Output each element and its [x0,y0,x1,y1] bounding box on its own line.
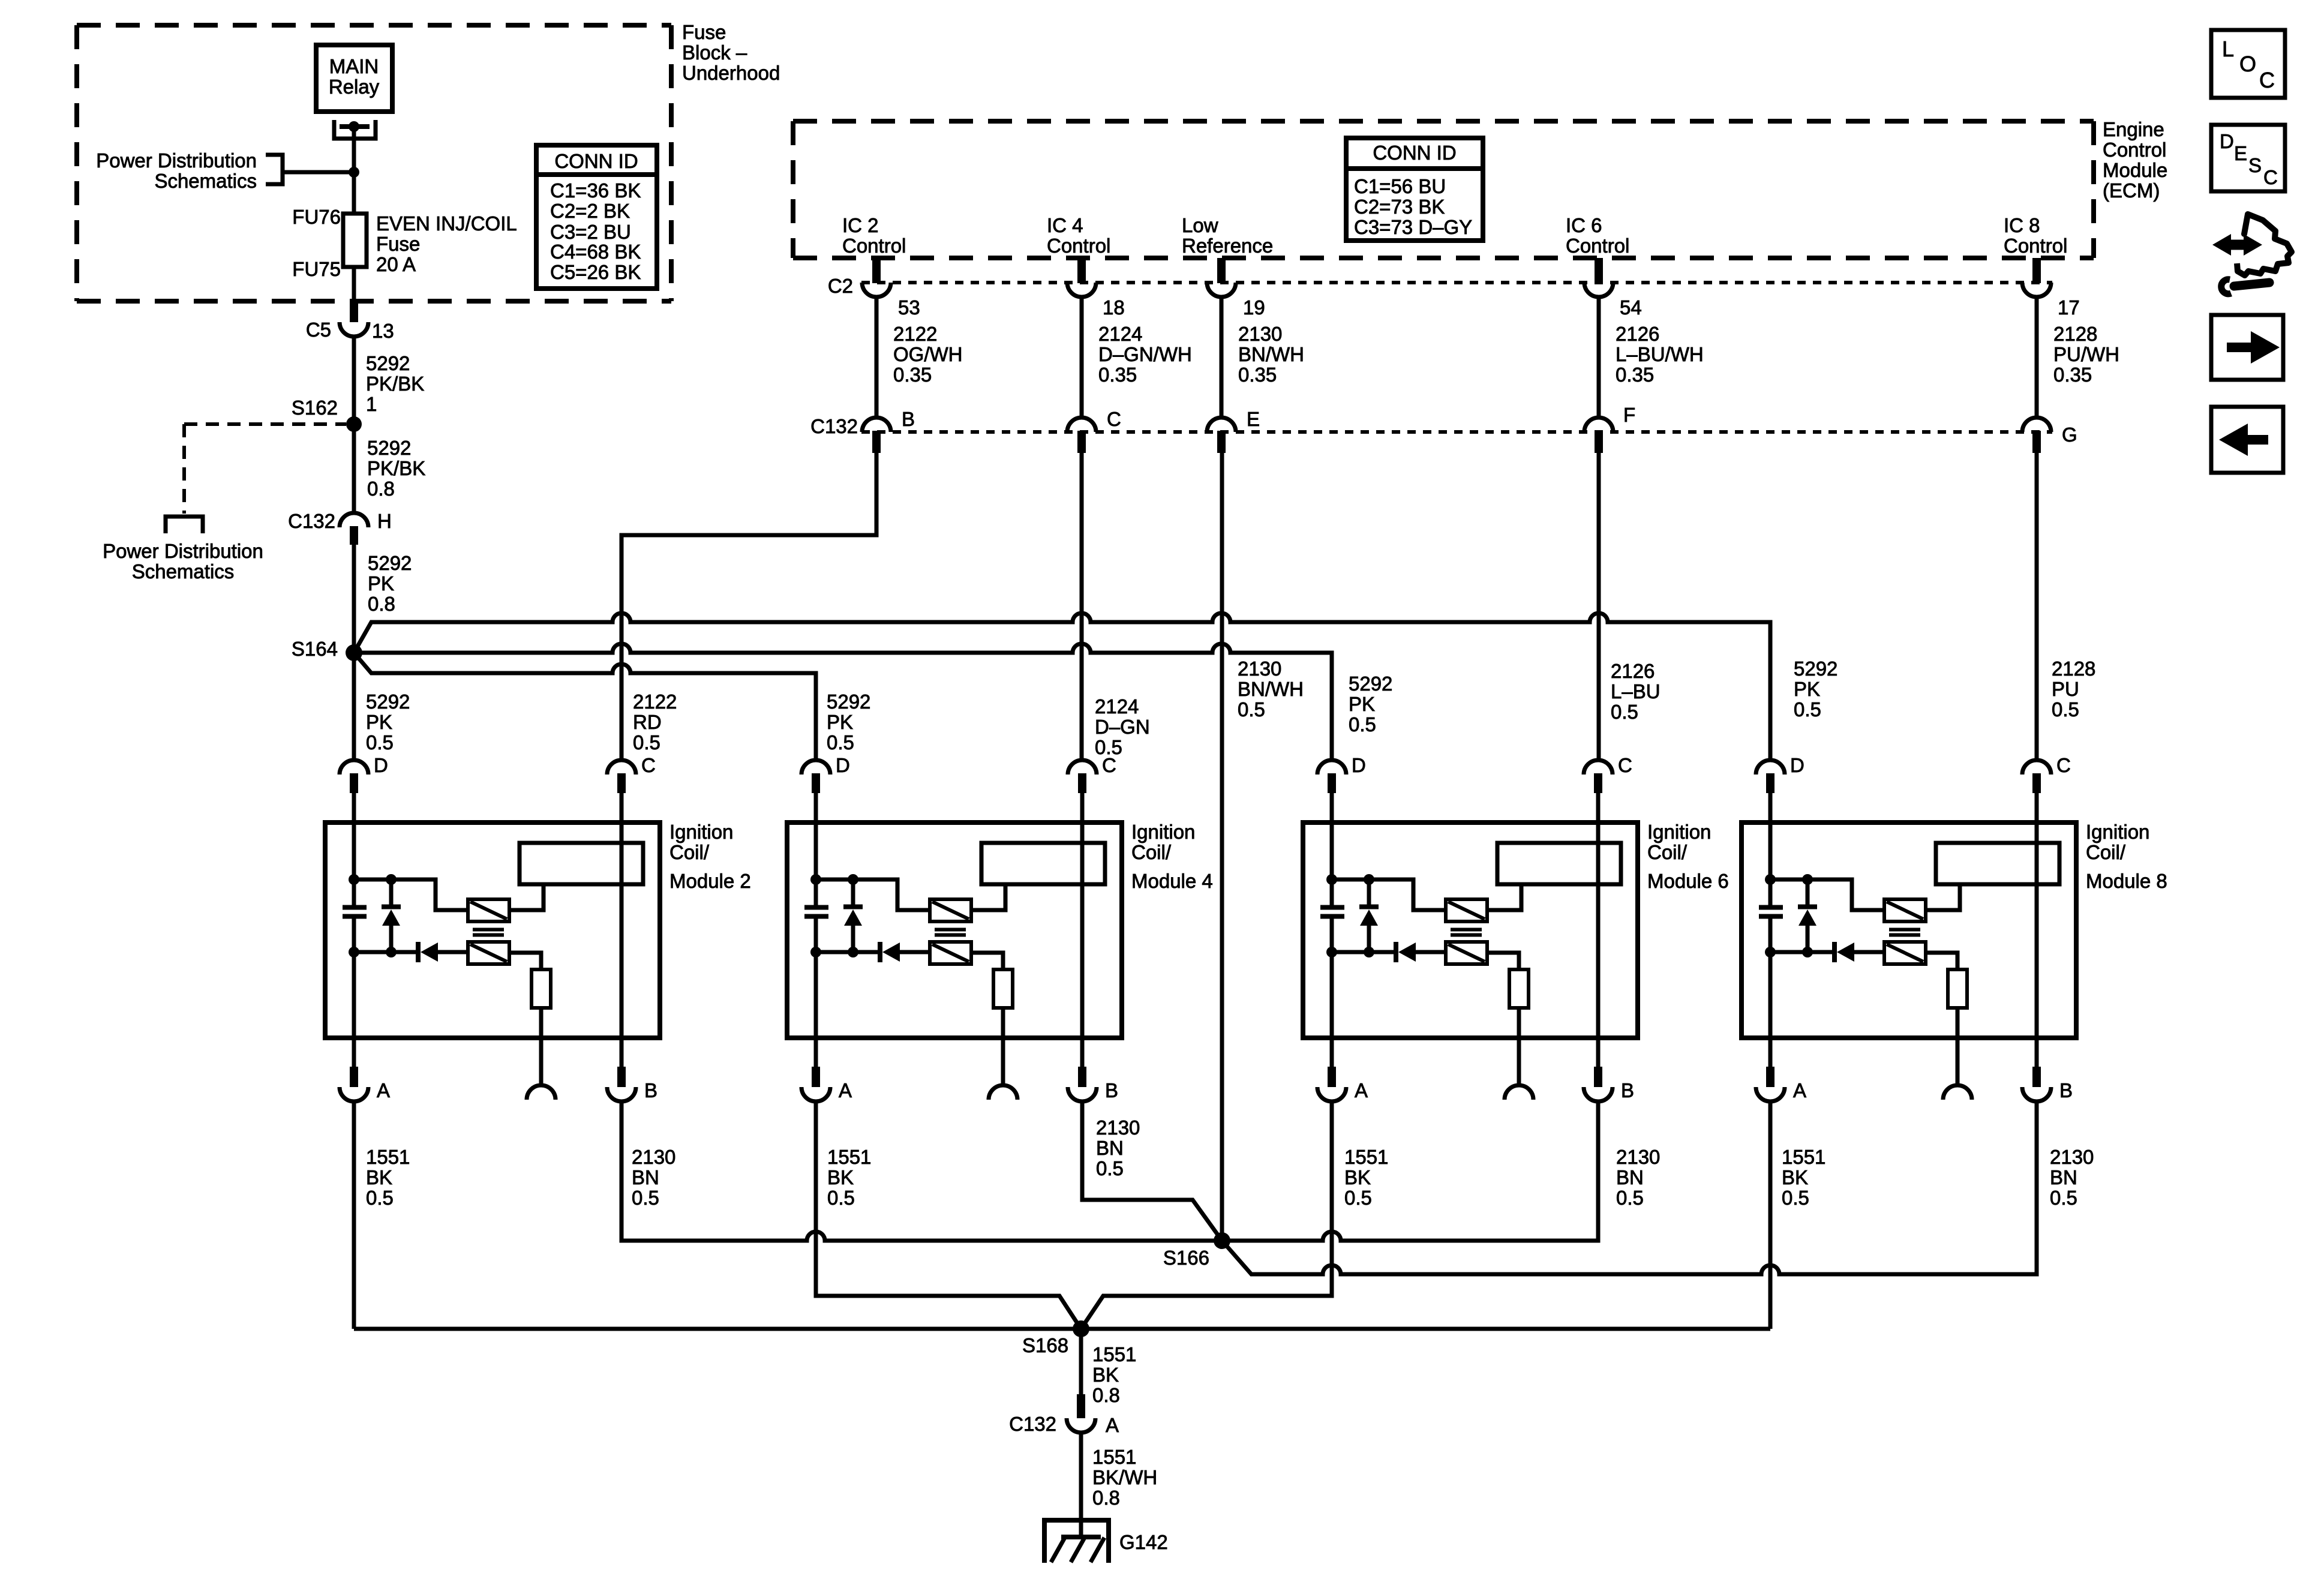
svg-text:C4=68 BK: C4=68 BK [550,241,641,263]
svg-text:17: 17 [2058,296,2080,319]
spark plug terminal coil 6 [1505,1085,1533,1100]
secondary winding coil 2 [468,942,509,964]
svg-text:O: O [2239,52,2256,76]
connector coil 6 pin C terminal [1584,760,1613,775]
svg-text:Control: Control [1566,235,1629,257]
node coil 8 bottom-left junction [1765,947,1776,957]
svg-text:2126: 2126 [1611,660,1655,682]
connector coil 6 pin C male pin [1594,773,1602,793]
driver block coil 4 [981,843,1105,884]
fuse block underhood dashed box [77,23,671,28]
primary winding coil 8 [1884,899,1926,921]
wire 2124 D-GN 0.5 (C132 C to coil 4 pin C) [1080,453,1084,760]
wire 5292 PK/BK 0.8 (S162 to C132 H) [352,424,356,513]
wire 2122 OG/WH 0.35 (pin53 to C132 B) [875,297,879,418]
connector C132 pin H male pin [350,526,358,545]
connector C2 pin 18 male pin [1077,258,1086,283]
primary winding coil 6 [1446,899,1487,921]
svg-text:PU/WH: PU/WH [2053,343,2119,365]
svg-text:D: D [2220,130,2234,152]
svg-text:Module 8: Module 8 [2086,870,2167,892]
svg-text:C1=36 BK: C1=36 BK [550,179,641,202]
connector C132 pin B terminal [862,418,891,432]
wire coil 8 primary to driver block [1926,884,1960,910]
wire 1551 BK 0.5 (coil 4 A to S168) [816,1101,1081,1329]
zener diode coil 2 [389,879,394,905]
svg-text:0.5: 0.5 [1782,1187,1809,1209]
conn id table fuse block [536,145,657,289]
svg-text:BN: BN [1616,1166,1644,1188]
svg-text:2124: 2124 [1095,695,1139,718]
svg-text:2122: 2122 [633,691,677,713]
resistor coil 6 [1509,969,1529,1008]
svg-text:Module 6: Module 6 [1647,870,1729,892]
svg-text:0.8: 0.8 [1092,1487,1120,1509]
svg-text:D: D [374,754,388,776]
ignition coil module 4 box [787,822,1122,1038]
wire 2130 BN/WH 0.35 (pin19 to C132 E) [1220,297,1224,418]
wire coil 4 resistor to spark output [1001,1008,1005,1085]
icon next arrow box [2211,315,2283,380]
wire 5292 PK 0.8 (C132 H to S164) [352,545,356,653]
svg-text:Relay: Relay [329,76,380,98]
svg-text:Reference: Reference [1182,235,1273,257]
svg-text:B: B [644,1079,657,1101]
svg-text:2130: 2130 [1238,658,1281,680]
svg-text:IC 2: IC 2 [842,214,879,236]
connector coil 2 pin C terminal [607,760,636,775]
svg-text:B: B [1621,1079,1634,1101]
svg-text:Power Distribution: Power Distribution [96,149,257,172]
wire 1551 BK 0.5 (S168 bus to coil 8 A) [354,1101,1770,1329]
svg-text:Power Distribution: Power Distribution [103,540,263,562]
svg-text:0.35: 0.35 [1616,364,1654,386]
ground G142 [1042,1520,1111,1563]
wire coil 2 top branch [354,879,468,910]
connector C132 pin E male pin [1217,431,1226,453]
connector coil 4 pin B male pin [1078,1067,1086,1087]
ignition coil module 6 box [1303,822,1638,1038]
svg-text:C2=2 BK: C2=2 BK [550,200,630,222]
connector coil 2 pin A male pin [350,1067,358,1087]
svg-text:Coil/: Coil/ [1647,841,1688,863]
connector coil 4 pin B terminal [1068,1087,1097,1101]
svg-text:13: 13 [372,320,394,342]
wire coil 4 supply D to capacitor [814,793,818,905]
wire 1551 BK 0.5 (coil 2 A to S168 bus) [352,1101,356,1329]
svg-text:C: C [2259,68,2275,92]
svg-text:H: H [377,510,392,532]
wire coil 6 secondary to resistor [1487,953,1519,969]
svg-text:C: C [1618,754,1632,776]
wire 2126 L-BU/WH 0.35 (pin54 to C132 F) [1597,297,1601,418]
connector coil 6 pin A terminal [1317,1087,1346,1101]
wire 1551 BK 0.5 (coil 6 A to S168) [1081,1101,1332,1329]
svg-text:C3=2 BU: C3=2 BU [550,221,631,243]
svg-text:BN: BN [632,1166,659,1188]
secondary winding coil 8 [1884,942,1926,964]
svg-text:C: C [641,754,656,776]
svg-text:2130: 2130 [1238,323,1282,345]
core coil 6 [1451,928,1482,932]
connector C2 pin 18 terminal [1067,283,1096,297]
svg-text:C1=56 BU: C1=56 BU [1354,175,1446,197]
connector coil 2 pin D terminal [340,760,368,775]
svg-text:0.5: 0.5 [1794,698,1821,721]
svg-text:C: C [2263,166,2278,188]
svg-text:BK: BK [827,1166,854,1188]
svg-text:Block –: Block – [682,41,747,64]
svg-text:Ignition: Ignition [669,821,733,843]
connector coil 6 pin B terminal [1584,1087,1613,1101]
svg-text:S164: S164 [292,638,338,660]
icon LOC box [2211,30,2285,98]
svg-text:2130: 2130 [1096,1116,1140,1139]
wire coil 4 primary to driver block [971,884,1005,910]
svg-text:2130: 2130 [632,1146,675,1168]
svg-text:0.8: 0.8 [367,478,395,500]
svg-text:20 A: 20 A [376,253,416,275]
svg-text:Module 2: Module 2 [669,870,751,892]
svg-text:D–GN: D–GN [1095,716,1150,738]
resistor coil 8 [1948,969,1967,1008]
wire 5292 PK 0.5 (S164 to coil 2 pin D) [352,653,356,760]
svg-text:C132: C132 [288,510,335,532]
svg-text:1551: 1551 [1344,1146,1388,1168]
wire coil 2 supply D to capacitor [352,793,356,905]
connector C132 pin F male pin [1595,431,1603,453]
svg-text:0.5: 0.5 [1238,698,1265,721]
secondary winding coil 4 [930,942,971,964]
svg-text:C132: C132 [1009,1413,1056,1435]
svg-text:C: C [1107,408,1121,430]
svg-text:MAIN: MAIN [329,55,379,77]
node coil 4 zener bottom junction [848,947,858,957]
svg-text:B: B [2059,1079,2073,1101]
wire coil 8 supply D to capacitor [1768,793,1773,905]
connector coil 6 pin B male pin [1594,1067,1602,1087]
svg-text:B: B [902,408,915,430]
svg-text:L–BU/WH: L–BU/WH [1616,343,1704,365]
capacitor coil 2 [343,905,367,910]
svg-text:0.5: 0.5 [827,1187,855,1209]
core coil 8 [1889,928,1920,932]
svg-text:S166: S166 [1163,1247,1209,1269]
svg-text:L: L [2222,37,2234,61]
svg-text:BN: BN [2050,1166,2077,1188]
svg-text:19: 19 [1243,296,1265,319]
wire bracket to junction [284,170,354,175]
wire 2126 L-BU 0.5 (C132 F to coil 6 pin C) [1597,453,1601,760]
svg-text:PK: PK [827,711,853,733]
capacitor coil 8 [1759,905,1783,910]
wire coil 6 supply D to capacitor [1330,793,1334,905]
svg-text:Low: Low [1182,214,1218,236]
svg-text:BN: BN [1096,1137,1124,1159]
connector C132 pin A male pin [1077,1394,1085,1418]
wire coil 2 secondary to resistor [509,953,541,969]
connector coil 6 pin D male pin [1328,773,1336,793]
svg-text:E: E [2234,142,2247,164]
svg-text:C5: C5 [306,319,331,341]
svg-text:1551: 1551 [1092,1343,1136,1365]
svg-text:G: G [2062,424,2077,446]
connector C2 pin 54 terminal [1584,283,1613,297]
wire 2128 PU 0.5 (C132 G to coil 8 pin C) [2035,453,2039,760]
wire coil 6 top branch [1332,879,1446,910]
svg-text:18: 18 [1103,296,1125,319]
svg-text:0.5: 0.5 [366,1187,394,1209]
svg-text:L–BU: L–BU [1611,680,1661,703]
svg-text:BK: BK [366,1166,392,1188]
node power distribution junction [349,167,359,178]
connector coil 8 pin C male pin [2032,773,2041,793]
svg-text:Control: Control [1047,235,1110,257]
node coil 2 zener top junction [386,874,397,885]
svg-text:5292: 5292 [1794,658,1837,680]
node coil 2 zener bottom junction [386,947,397,957]
engine control module ECM dashed box [793,119,2094,124]
splice S166 [1214,1232,1230,1249]
ignition coil module 8 box [1742,822,2076,1038]
connector coil 6 pin A male pin [1328,1067,1336,1087]
wire 5292 PK 0.5 (S164 to coil 6 pin D) [354,644,1332,760]
svg-text:0.35: 0.35 [1098,364,1137,386]
svg-text:(ECM): (ECM) [2103,179,2160,202]
connector C132 pin E terminal [1207,418,1236,432]
svg-text:G142: G142 [1119,1531,1168,1553]
wire coil 8 control C through driver [2035,793,2039,1067]
svg-text:0.5: 0.5 [2050,1187,2077,1209]
svg-text:1: 1 [366,393,377,415]
wire coil 6 bottom branch to diode [1332,950,1394,954]
connector C132 pin C male pin [1077,431,1086,453]
svg-text:0.5: 0.5 [1349,713,1376,736]
svg-text:S168: S168 [1022,1334,1068,1356]
connector coil 4 pin C male pin [1078,773,1086,793]
svg-text:RD: RD [633,711,662,733]
wire coil 4 control C through driver [1080,793,1085,1067]
wire 5292 PK/BK 1 (C5 to S162) [352,337,356,424]
node coil 2 bottom-left junction [349,947,359,957]
svg-text:C132: C132 [810,415,858,437]
wire coil 6 resistor to spark output [1517,1008,1521,1085]
connector coil 8 pin B male pin [2032,1067,2041,1087]
wire 1551 BK/WH 0.8 (C132 A to G142) [1079,1433,1083,1537]
svg-text:C5=26 BK: C5=26 BK [550,261,641,283]
driver block coil 6 [1497,843,1621,884]
svg-text:D–GN/WH: D–GN/WH [1098,343,1192,365]
connector coil 8 pin B terminal [2022,1087,2051,1101]
diode coil 2 [416,942,421,962]
svg-text:Ignition: Ignition [2086,821,2149,843]
connector C2 pin 19 terminal [1207,283,1236,297]
svg-text:Schematics: Schematics [132,560,235,583]
svg-text:FU75: FU75 [292,258,341,280]
wire coil 4 secondary to resistor [971,953,1003,969]
off-page bracket power distribution [266,155,283,184]
svg-text:D: D [836,754,850,776]
svg-text:5292: 5292 [366,352,410,374]
wire 2130 BN 0.5 (coil 2 B to S166 bus) [621,1101,1598,1241]
svg-text:B: B [1105,1079,1118,1101]
wire 1551 BK 0.8 (S168 to C132 A) [1079,1329,1083,1394]
relay contact dot [349,121,359,132]
svg-text:0.8: 0.8 [368,593,395,615]
wire 2130 BN/WH 0.5 (C132 E to S166) [1220,453,1224,1241]
connector C132 pin G terminal [2022,418,2051,432]
resistor coil 4 [993,969,1013,1008]
wire relay to junction [352,127,356,172]
svg-text:S162: S162 [292,397,338,419]
svg-text:Fuse: Fuse [376,233,420,255]
node coil 8 top-left junction [1765,874,1776,885]
wire coil 4 capacitor to ground leg [814,918,818,1067]
svg-text:BK: BK [1092,1364,1119,1386]
connector C132 pin A terminal [1067,1418,1095,1433]
svg-text:F: F [1623,404,1635,426]
svg-text:D: D [1352,754,1366,776]
diode coil 4 [878,942,882,962]
wire 2124 D-GN/WH 0.35 (pin18 to C132 C) [1080,297,1084,418]
svg-text:PK/BK: PK/BK [367,457,425,479]
icon previous arrow box [2211,407,2283,473]
svg-text:Fuse: Fuse [682,21,726,43]
connector coil 8 pin C terminal [2022,760,2051,775]
svg-text:OG/WH: OG/WH [893,343,962,365]
driver block coil 8 [1936,843,2059,884]
svg-text:2128: 2128 [2052,658,2095,680]
connector C5 pin 13 male pin [350,301,358,322]
svg-text:FU76: FU76 [292,206,341,228]
connector C132 pin F terminal [1584,418,1613,432]
secondary winding coil 6 [1446,942,1487,964]
svg-text:5292: 5292 [1349,673,1392,695]
wire 2128 PU/WH 0.35 (pin17 to C132 G) [2035,297,2039,418]
svg-text:PK: PK [366,711,392,733]
connector coil 4 pin D male pin [812,773,820,793]
svg-text:2124: 2124 [1098,323,1142,345]
spark plug terminal coil 4 [989,1085,1017,1100]
icon DESC box [2211,125,2285,191]
svg-text:0.5: 0.5 [1611,701,1638,723]
conn id table ECM [1346,138,1483,241]
wire fuse to connector C5 [352,267,356,301]
svg-text:0.35: 0.35 [893,364,932,386]
svg-text:A: A [839,1079,852,1101]
wire 5292 PK 0.5 (S164 to coil 8 pin D) [354,613,1770,760]
connector row C2 dotted line [861,281,2052,284]
svg-text:IC 4: IC 4 [1047,214,1083,236]
splice S168 [1073,1320,1089,1337]
wire coil 4 bottom branch to diode [816,950,878,954]
svg-text:CONN ID: CONN ID [1373,142,1456,164]
wire coil 2 resistor to spark output [539,1008,544,1085]
wire coil 2 control C through driver [620,793,624,1067]
wire coil 2 capacitor to ground leg [352,918,356,1067]
svg-text:0.5: 0.5 [633,731,660,754]
wire 2122 RD 0.5 (C132 B to coil 2 pin C) [621,453,876,760]
wire coil 8 secondary to resistor [1926,953,1957,969]
fuse FU75/FU76 EVEN INJ/COIL 20A [343,214,367,267]
node coil 6 zener bottom junction [1364,947,1374,957]
svg-text:53: 53 [898,296,920,319]
svg-text:A: A [1793,1079,1806,1101]
node coil 4 bottom-left junction [810,947,821,957]
svg-text:IC 6: IC 6 [1566,214,1602,236]
svg-text:5292: 5292 [368,552,412,574]
connector C132 pin C terminal [1067,418,1096,432]
primary winding coil 2 [468,899,509,921]
svg-text:BN/WH: BN/WH [1238,343,1304,365]
svg-text:PK: PK [1349,693,1375,715]
off-page bracket power distribution (lower) [166,517,203,533]
svg-text:0.5: 0.5 [1344,1187,1372,1209]
wire coil 8 capacitor to ground leg [1768,918,1773,1067]
svg-text:A: A [1106,1414,1119,1436]
zener diode coil 6 [1367,879,1371,905]
svg-text:Coil/: Coil/ [669,841,710,863]
wire 2130 BN 0.5 (S166 to coil 8 B) [1222,1101,2037,1274]
wire 5292 PK 0.5 (S164 to coil 4 pin D) [354,653,816,760]
svg-text:BK/WH: BK/WH [1092,1466,1157,1488]
svg-text:2130: 2130 [1616,1146,1660,1168]
connector C2 pin 19 male pin [1217,258,1226,283]
svg-text:Ignition: Ignition [1131,821,1195,843]
wire coil 6 primary to driver block [1487,884,1521,910]
svg-text:C: C [1102,754,1116,776]
connector coil 4 pin A terminal [801,1087,830,1101]
relay K MAIN Relay box [316,45,392,112]
svg-text:IC 8: IC 8 [2004,214,2040,236]
svg-text:5292: 5292 [367,437,411,459]
svg-text:2122: 2122 [893,323,937,345]
zener diode coil 4 [851,879,855,905]
connector coil 2 pin D male pin [350,773,358,793]
wire coil 2 primary to driver block [509,884,544,910]
connector C2 pin 17 male pin [2032,258,2041,283]
svg-text:0.5: 0.5 [632,1187,659,1209]
svg-text:BK: BK [1344,1166,1371,1188]
svg-text:CONN ID: CONN ID [554,150,638,172]
svg-text:0.5: 0.5 [1616,1187,1644,1209]
connector coil 8 pin D male pin [1766,773,1774,793]
svg-text:Control: Control [2004,235,2067,257]
spark plug terminal coil 8 [1943,1085,1972,1100]
svg-text:0.5: 0.5 [1096,1157,1124,1179]
wire coil 4 top branch [816,879,930,910]
dashed wire S162 to power distribution [184,422,346,426]
svg-text:1551: 1551 [827,1146,871,1168]
svg-text:5292: 5292 [827,691,870,713]
connector coil 4 pin A male pin [812,1067,820,1087]
svg-text:0.35: 0.35 [1238,364,1277,386]
svg-text:C3=73 D–GY: C3=73 D–GY [1354,216,1472,238]
connector coil 4 pin D terminal [801,760,830,775]
connector C5 pin 13 terminal [340,322,368,337]
svg-text:0.5: 0.5 [827,731,854,754]
svg-text:PK/BK: PK/BK [366,373,424,395]
svg-text:Module: Module [2103,159,2167,181]
node coil 8 zener top junction [1802,874,1813,885]
svg-text:Control: Control [842,235,906,257]
node coil 2 top-left junction [349,874,359,885]
svg-text:5292: 5292 [366,691,410,713]
node coil 8 zener bottom junction [1802,947,1813,957]
svg-text:Underhood: Underhood [682,62,780,84]
connector coil 2 pin A terminal [340,1087,368,1101]
driver block coil 2 [520,843,643,884]
